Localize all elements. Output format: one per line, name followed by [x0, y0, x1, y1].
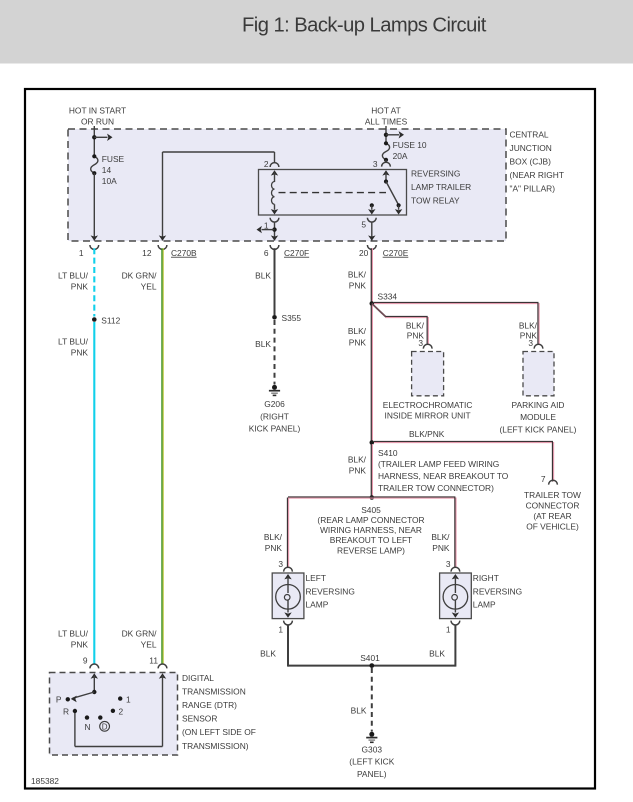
svg-text:BLK: BLK — [255, 271, 271, 281]
svg-text:2: 2 — [119, 706, 124, 716]
svg-text:BLK/PNK: BLK/PNK — [409, 429, 445, 439]
svg-text:HOT AT: HOT AT — [371, 105, 400, 115]
svg-text:BOX (CJB): BOX (CJB) — [510, 157, 552, 167]
svg-text:C270F: C270F — [284, 248, 309, 258]
svg-text:SENSOR: SENSOR — [182, 714, 217, 724]
svg-text:CENTRAL: CENTRAL — [510, 130, 549, 140]
svg-text:5: 5 — [361, 219, 366, 229]
svg-text:11: 11 — [149, 656, 158, 666]
svg-text:C270B: C270B — [171, 248, 197, 258]
svg-text:(RIGHT: (RIGHT — [260, 411, 289, 421]
svg-text:PANEL): PANEL) — [357, 769, 387, 779]
svg-text:LAMP: LAMP — [306, 600, 329, 610]
svg-text:12: 12 — [142, 248, 152, 258]
svg-text:FUSE: FUSE — [102, 154, 125, 164]
svg-text:BLK: BLK — [260, 649, 276, 659]
svg-text:3: 3 — [373, 159, 378, 169]
svg-text:PNK: PNK — [71, 639, 89, 649]
svg-text:PNK: PNK — [265, 543, 283, 553]
svg-text:TRAILER TOW CONNECTOR): TRAILER TOW CONNECTOR) — [378, 483, 494, 493]
svg-text:TRANSMISSION: TRANSMISSION — [182, 686, 246, 696]
svg-text:LT BLU/: LT BLU/ — [58, 271, 89, 281]
svg-text:S410: S410 — [378, 448, 398, 458]
svg-text:INSIDE MIRROR UNIT: INSIDE MIRROR UNIT — [385, 410, 471, 420]
svg-text:LEFT: LEFT — [306, 573, 326, 583]
svg-text:MODULE: MODULE — [520, 412, 556, 422]
svg-text:OR RUN: OR RUN — [81, 117, 114, 127]
svg-text:N: N — [84, 722, 90, 732]
svg-text:9: 9 — [83, 656, 88, 666]
svg-text:Fig 1: Back-up Lamps Circuit: Fig 1: Back-up Lamps Circuit — [242, 15, 487, 37]
svg-text:DIGITAL: DIGITAL — [182, 673, 214, 683]
svg-text:CONNECTOR: CONNECTOR — [526, 500, 580, 510]
svg-text:BLK/: BLK/ — [431, 532, 450, 542]
svg-text:1: 1 — [446, 624, 451, 634]
svg-text:ELECTROCHROMATIC: ELECTROCHROMATIC — [383, 400, 473, 410]
svg-text:2: 2 — [264, 159, 269, 169]
svg-text:PNK: PNK — [349, 281, 367, 291]
svg-text:6: 6 — [264, 248, 269, 258]
svg-text:HARNESS, NEAR BREAKOUT TO: HARNESS, NEAR BREAKOUT TO — [378, 471, 509, 481]
svg-text:BLK/: BLK/ — [348, 454, 367, 464]
svg-text:BLK/: BLK/ — [406, 320, 425, 330]
svg-text:YEL: YEL — [141, 639, 157, 649]
svg-text:LAMP TRAILER: LAMP TRAILER — [411, 182, 471, 192]
svg-text:S405: S405 — [361, 505, 381, 515]
svg-text:7: 7 — [541, 474, 546, 484]
svg-text:BLK: BLK — [255, 339, 271, 349]
svg-text:20: 20 — [359, 248, 369, 258]
svg-text:1: 1 — [278, 624, 283, 634]
svg-text:(REAR LAMP CONNECTOR: (REAR LAMP CONNECTOR — [317, 515, 424, 525]
svg-text:1: 1 — [126, 694, 131, 704]
svg-text:PNK: PNK — [520, 331, 538, 341]
svg-text:DK GRN/: DK GRN/ — [122, 628, 158, 638]
svg-text:PNK: PNK — [407, 331, 425, 341]
svg-text:PNK: PNK — [432, 543, 450, 553]
svg-text:BREAKOUT TO LEFT: BREAKOUT TO LEFT — [330, 535, 412, 545]
svg-text:G303: G303 — [362, 745, 383, 755]
svg-text:D: D — [102, 723, 108, 732]
svg-text:BLK: BLK — [351, 705, 367, 715]
svg-text:(ON LEFT SIDE OF: (ON LEFT SIDE OF — [182, 727, 256, 737]
svg-text:PNK: PNK — [71, 348, 89, 358]
svg-text:R: R — [63, 706, 69, 716]
svg-text:LT BLU/: LT BLU/ — [58, 337, 89, 347]
svg-text:S112: S112 — [101, 315, 120, 325]
svg-text:BLK/: BLK/ — [264, 532, 283, 542]
svg-text:REVERSING: REVERSING — [473, 586, 522, 596]
svg-text:3: 3 — [278, 559, 283, 569]
svg-text:KICK PANEL): KICK PANEL) — [249, 424, 301, 434]
svg-text:S401: S401 — [360, 653, 380, 663]
svg-text:20A: 20A — [393, 151, 408, 161]
svg-text:DK GRN/: DK GRN/ — [122, 271, 158, 281]
svg-text:C270E: C270E — [383, 248, 409, 258]
svg-text:1: 1 — [79, 248, 84, 258]
svg-text:S334: S334 — [378, 292, 398, 302]
svg-text:"A" PILLAR): "A" PILLAR) — [510, 184, 556, 194]
svg-text:P: P — [56, 694, 62, 704]
svg-text:BLK: BLK — [429, 649, 445, 659]
svg-text:PNK: PNK — [71, 282, 89, 292]
svg-text:G206: G206 — [264, 399, 285, 409]
svg-text:BLK/: BLK/ — [519, 320, 538, 330]
svg-text:WIRING HARNESS, NEAR: WIRING HARNESS, NEAR — [320, 525, 422, 535]
svg-text:(AT REAR: (AT REAR — [533, 511, 571, 521]
svg-text:REVERSING: REVERSING — [411, 169, 460, 179]
svg-text:TRAILER TOW: TRAILER TOW — [524, 490, 581, 500]
svg-text:RIGHT: RIGHT — [473, 573, 499, 583]
svg-text:PARKING AID: PARKING AID — [512, 400, 565, 410]
svg-text:(TRAILER LAMP FEED WIRING: (TRAILER LAMP FEED WIRING — [378, 459, 499, 469]
svg-text:(NEAR RIGHT: (NEAR RIGHT — [510, 170, 564, 180]
svg-text:1: 1 — [264, 220, 269, 230]
svg-text:YEL: YEL — [141, 282, 157, 292]
svg-text:FUSE 10: FUSE 10 — [393, 140, 427, 150]
svg-text:PNK: PNK — [349, 466, 367, 476]
svg-text:185382: 185382 — [31, 776, 59, 786]
svg-text:10A: 10A — [102, 176, 117, 186]
svg-text:ALL TIMES: ALL TIMES — [365, 117, 408, 127]
svg-text:HOT IN START: HOT IN START — [69, 105, 126, 115]
svg-text:LT BLU/: LT BLU/ — [58, 628, 89, 638]
svg-text:(LEFT KICK: (LEFT KICK — [349, 757, 394, 767]
svg-text:LAMP: LAMP — [473, 600, 496, 610]
svg-text:TOW RELAY: TOW RELAY — [411, 195, 460, 205]
svg-text:BLK/: BLK/ — [348, 326, 367, 336]
svg-text:RANGE (DTR): RANGE (DTR) — [182, 700, 237, 710]
svg-text:3: 3 — [446, 559, 451, 569]
svg-text:TRANSMISSION): TRANSMISSION) — [182, 741, 249, 751]
svg-text:REVERSING: REVERSING — [306, 586, 355, 596]
svg-text:BLK/: BLK/ — [348, 269, 367, 279]
svg-text:OF VEHICLE): OF VEHICLE) — [526, 521, 579, 531]
svg-text:(LEFT KICK PANEL): (LEFT KICK PANEL) — [500, 425, 577, 435]
svg-text:REVERSE LAMP): REVERSE LAMP) — [337, 545, 405, 555]
svg-text:S355: S355 — [282, 313, 302, 323]
svg-text:PNK: PNK — [349, 337, 367, 347]
svg-text:14: 14 — [102, 165, 112, 175]
svg-text:JUNCTION: JUNCTION — [510, 143, 552, 153]
